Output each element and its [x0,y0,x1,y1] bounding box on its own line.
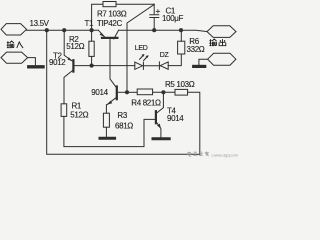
label shuru (input) hanzi [7,41,23,48]
wire output minus to ground [199,59,208,64]
node C1 output rail dot [152,28,156,32]
wm jia [205,152,209,157]
wire output rail [119,30,207,31]
LED light arrows [140,55,148,60]
wire R2 top lead [91,30,93,41]
svg-text:R4 821Ω: R4 821Ω [131,98,161,107]
svg-text:512Ω: 512Ω [70,110,88,119]
svg-text:9012: 9012 [49,58,66,67]
wire C1 top lead [153,4,155,14]
resistor R6 [178,41,185,54]
watermark dgzj [188,152,209,157]
wire LED to DZ [143,65,160,67]
transistor T4 bar [155,111,157,123]
ground T3 [100,137,115,140]
ground input [29,65,43,68]
svg-text:R1: R1 [72,102,82,111]
wire R2 bottom lead [91,56,93,65]
wire T4 emitter [156,121,161,137]
resistor R5 [175,89,188,95]
wire R6 top lead [180,30,182,41]
svg-text:9014: 9014 [91,88,108,97]
capacitor C1 [150,15,159,18]
wire bias diagonal to T3 base riser [127,4,154,92]
input + terminal hexagon [1,24,27,35]
resistor R1 [61,104,67,117]
wire input rail [27,29,99,31]
svg-text:T1 TIP42C: T1 TIP42C [85,19,123,28]
wire T1 base riser to T3 [110,39,116,87]
wire T4 collector riser [157,92,164,113]
wire DZ to R6 [168,54,181,66]
svg-text:R5 103Ω: R5 103Ω [165,80,195,89]
svg-text:681Ω: 681Ω [115,122,133,131]
ground output [194,65,205,68]
wire left loop riser and bottom run to R5 [47,30,200,154]
zener diode DZ [160,62,168,69]
svg-text:R7 103Ω: R7 103Ω [97,9,127,18]
output - terminal hexagon [208,53,236,65]
transistor T1 bar [102,37,117,39]
node loop tap dot [45,28,49,32]
transistor T1 emitter diagonal [98,30,104,37]
svg-text:332Ω: 332Ω [187,45,205,54]
LED D1 [135,62,143,69]
svg-text:R3: R3 [117,111,127,120]
node T3 base dot [125,90,129,94]
node R7/R2 dot [90,28,94,32]
svg-text:| www.dgzj.com: | www.dgzj.com [212,152,239,157]
svg-text:LED: LED [135,45,148,52]
output + terminal hexagon [207,26,236,38]
wire T2 emitter riser [64,30,72,61]
resistor R4 [137,89,152,95]
wire T3 emitter to R3 [105,105,107,114]
glyph shu [7,41,14,48]
resistor R3 [103,113,109,127]
C1 plus mark [156,10,160,13]
svg-text:9014: 9014 [167,114,184,123]
wm dian [188,152,192,157]
wire T2 collector [64,70,73,104]
wire T3 emitter [107,98,116,105]
resistor R7 [103,2,116,7]
wm zhi [200,152,204,156]
resistor R2 [89,41,94,56]
wire R3 bottom lead [105,127,107,136]
wire T1 collector [114,30,119,39]
T4 emitter arrow [157,124,161,129]
wire R4 to R5 [153,91,175,93]
label shuchu (output) hanzi [209,39,226,46]
node T4 collector dot [161,90,165,94]
wire R4 left lead [127,91,137,93]
wire LED row [92,65,135,67]
T3 emitter arrow [107,101,112,105]
input - terminal hexagon [1,52,28,63]
wire R1 bottom to T4 base [64,116,155,146]
wm gong [193,152,197,156]
svg-text:100μF: 100μF [162,14,184,23]
svg-text:512Ω: 512Ω [66,42,84,51]
glyph chu [219,39,226,46]
wire T3 base [117,91,127,93]
wire input minus to ground [28,58,36,65]
glyph ru [17,41,23,48]
transistor T2 bar [72,60,74,71]
T1 emitter arrow [100,33,105,37]
transistor T3 bar [116,87,118,100]
wire T2 base [74,65,92,67]
node R6 rail dot [179,28,183,32]
node T2 emitter dot [62,28,66,32]
wire R7 to corner [116,3,154,5]
wire C1 bottom lead [153,18,155,30]
ground T4 [153,137,169,140]
svg-text:13.5V: 13.5V [30,19,50,28]
node T2 base dot [90,64,94,68]
T2 emitter arrow [68,57,73,61]
svg-text:DZ: DZ [160,52,170,59]
wire R7 riser [92,4,103,30]
glyph shu [209,39,216,46]
